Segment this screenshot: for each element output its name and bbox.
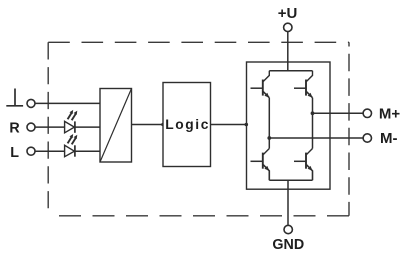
terminal M- [363,134,371,142]
wire right bridge leg [312,98,314,149]
terminal GND [284,225,292,233]
wire logic to H-bridge [211,124,247,126]
ground symbol [6,89,23,106]
svg-text:Logic: Logic [165,117,210,132]
transistor Q2 (top right) [294,71,313,98]
logic block U2 [163,83,211,167]
node at logic input [161,123,165,127]
svg-text:M+: M+ [379,106,400,123]
transistor Q1 (top left) [251,71,270,98]
svg-text:M-: M- [380,130,398,147]
svg-text:GND: GND [272,237,304,253]
optocoupler U1 [100,89,132,163]
terminal ground (top left) [27,99,35,107]
wire ground row [35,102,100,104]
terminal R [27,123,35,131]
transistor Q4 (bottom right) [294,149,313,181]
terminal L [27,147,35,155]
svg-text:R: R [9,121,20,137]
wire optocoupler to logic [132,124,164,126]
node M- junction [267,136,271,140]
svg-text:L: L [10,145,19,161]
node at H-bridge input [245,123,249,127]
wire M- [269,137,363,139]
wire M+ [313,112,363,114]
LED D2 (L channel) [65,134,78,157]
wire top rail [269,70,312,72]
wire L row [35,150,100,152]
wire +U supply [287,32,289,71]
wire left bridge leg [268,98,270,149]
wire R row [35,126,100,128]
transistor Q3 (bottom left) [251,149,270,181]
terminal M+ [363,109,371,117]
terminal +U [284,23,292,31]
wire GND [287,180,289,225]
module outline (dashed) [48,42,349,216]
node M+ junction [311,111,315,115]
svg-text:+U: +U [278,5,298,22]
H-bridge block [247,62,331,189]
LED D1 (R channel) [65,110,78,133]
wire bottom rail [269,179,312,181]
